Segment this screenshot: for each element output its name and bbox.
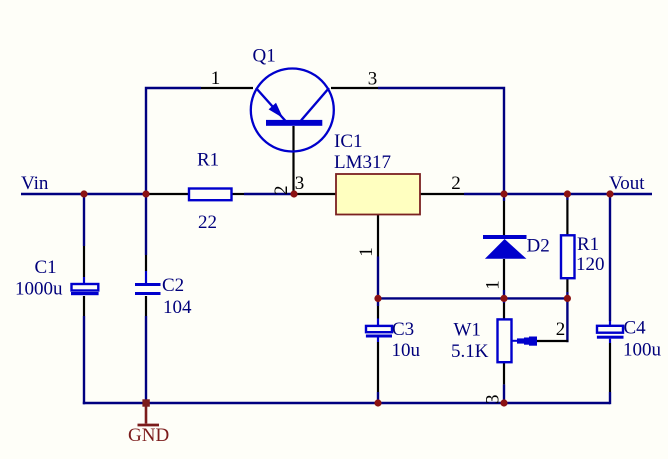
pin IC1 pin1 [377,215,379,257]
pin Q1 pin1 [201,87,253,89]
node junction Vin-C1 [80,190,87,197]
pin IC1 pin2 [420,193,464,195]
node junction ADJ-C3 [374,295,381,302]
wire W1 bottom [503,384,505,403]
svg-text:Vout: Vout [609,173,645,194]
wire wiper riser [566,298,568,342]
capacitor C2 stub [145,271,147,283]
capacitor C4 bottom plate [597,336,624,339]
pin C1 pin1 [83,246,85,277]
svg-text:R1: R1 [577,234,599,255]
svg-text:1: 1 [356,247,377,257]
svg-text:W1: W1 [454,320,481,341]
wire Q1 collector to Vout rail [378,88,504,194]
svg-text:120: 120 [576,254,605,275]
diode D2 triangle [485,239,527,259]
transistor Q1 base bar [266,120,322,126]
pin C1 pin2 [83,296,85,316]
capacitor C3 top plate box [366,326,392,332]
transistor Q1 emitter line [256,88,286,122]
svg-text:LM317: LM317 [334,152,391,173]
wire W1 top stub [503,298,505,303]
node junction ADJ-R1b [564,295,571,302]
wire between R1 and IC1 [244,193,295,195]
capacitor C2 plate2 [135,292,161,295]
capacitor C2 plate1 [135,283,161,286]
capacitor C1 bottom plate [71,292,99,295]
resistor R1 120 body [561,235,575,278]
pin R1b pin2 [566,278,568,292]
potentiometer W1 wiper arrow step2 [524,338,529,345]
wire Vout rail [464,193,652,195]
capacitor C4 stubs [609,321,611,326]
wire Vin rail left [21,193,148,195]
svg-text:2: 2 [451,173,461,194]
svg-text:104: 104 [163,297,192,318]
svg-text:10u: 10u [392,340,421,361]
wire R1b bottom stub [566,292,568,298]
capacitor C4 top plate box [597,326,623,333]
svg-text:GND: GND [128,425,169,446]
pin R1b pin1 [566,200,568,235]
transistor Q1 circle [251,69,334,152]
svg-text:3: 3 [295,173,305,194]
svg-text:2: 2 [271,186,292,196]
pin C2 pin2 [145,296,147,316]
pin R1 pin1 [148,193,189,195]
transistor Q1 emitter arrow [269,103,283,118]
wire C4 branch upper [609,193,611,321]
svg-text:5.1K: 5.1K [451,341,489,362]
svg-text:2: 2 [556,319,566,340]
pin IC1 pin3 [295,193,336,195]
wire C1 branch upper [83,193,85,246]
node junction Vout-D2 [500,190,507,197]
node junction gnd-C3 [374,399,381,406]
wire D2 top stub [503,194,505,201]
pin W1 pin3 [503,362,505,384]
pin Q1 pin3 [331,87,378,89]
svg-text:1: 1 [211,68,221,89]
node junction ADJ-W1 [500,295,507,302]
ground GND symbol [142,399,149,406]
pin D2 pin2 [503,201,505,235]
wire ADJ vertical [377,257,379,299]
svg-text:22: 22 [198,212,217,233]
capacitor C1 top plate box [72,284,99,291]
pin R1 pin2 [232,193,245,195]
pin C2 pin1 [145,255,147,271]
node junction Vout-C4 [606,190,613,197]
svg-text:Vin: Vin [21,173,49,194]
svg-text:IC1: IC1 [334,131,363,152]
svg-text:D2: D2 [527,236,550,257]
svg-text:3: 3 [368,68,378,89]
pin C3 pin2 [377,342,379,392]
pin W1 pin2 wiper lead [537,340,568,342]
potentiometer W1 wiper arrow step3 [529,337,537,346]
pin W1 pin1 [503,303,505,319]
svg-text:C3: C3 [392,319,414,340]
potentiometer W1 body [498,319,512,362]
node junction gnd-W1 [500,399,507,406]
svg-text:C1: C1 [35,257,57,278]
svg-text:1000u: 1000u [15,279,63,300]
wire C2 branch lower [145,316,147,403]
svg-text:R1: R1 [197,150,219,171]
wire ADJ horizontal [378,297,567,299]
wire C1 branch lower [83,316,85,404]
wire R1b top stub [566,194,568,200]
svg-text:C4: C4 [624,318,647,339]
pin C3 pin1 [377,306,379,319]
svg-text:1: 1 [483,280,504,290]
wire C3 top stub [377,298,379,306]
wire ground rail [83,402,610,404]
wire C3 bottom stub [377,392,379,403]
resistor R1 22 body [189,189,232,201]
capacitor C3 stubs [377,319,379,326]
wire C4 bottom [609,392,611,404]
pin C4 pin2 [609,343,611,392]
node junction Vin-C2 [142,190,149,197]
diode D2 cathode bar [483,235,527,239]
capacitor C1 stub [83,277,85,284]
wire D2 bottom stub [503,290,505,298]
transistor Q1 collector line [301,88,329,121]
pin D2 pin1 [503,259,505,290]
op-amp U1 IC1 LM317 body [336,174,420,215]
capacitor C3 bottom plate [366,335,392,338]
svg-text:3: 3 [483,395,504,405]
node junction Vout-R1b [564,190,571,197]
svg-text:Q1: Q1 [253,46,276,67]
wire C2 branch upper [145,194,147,255]
svg-text:100u: 100u [623,340,662,361]
svg-text:C2: C2 [162,275,184,296]
potentiometer W1 wiper arrow step1 [517,338,524,343]
wire riser to Q1 top [146,88,201,194]
pin Q1 pin2 base [292,126,294,194]
node junction Q1 base [290,190,297,197]
potentiometer W1 wiper stub [512,340,518,342]
